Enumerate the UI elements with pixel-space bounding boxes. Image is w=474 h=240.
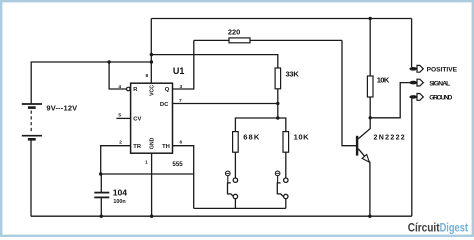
- svg-text:TR: TR: [133, 144, 142, 150]
- svg-text:TH: TH: [162, 144, 170, 150]
- CircuitDigest logo: [408, 222, 468, 234]
- wire pin1 GND leg: [151, 153, 153, 216]
- svg-text:U1: U1: [173, 66, 185, 76]
- svg-text:3: 3: [179, 84, 182, 90]
- wire 10K button resistor bottom lead: [285, 152, 287, 178]
- resistor 68K: [233, 132, 239, 153]
- wire 68K and 10K tops: [235, 118, 285, 132]
- wire pin2 TR leg: [101, 146, 131, 174]
- wire button S1 bottom lead: [234, 199, 236, 209]
- node GND pin to ground rail: [150, 215, 153, 218]
- wire capacitor top lead: [100, 174, 102, 192]
- push button S1: [226, 171, 238, 199]
- svg-text:7: 7: [179, 98, 182, 104]
- wire pin3 Q output: [173, 40, 194, 89]
- svg-text:68K: 68K: [243, 133, 260, 142]
- node 33K to divider: [276, 116, 279, 119]
- svg-text:33K: 33K: [286, 70, 300, 79]
- svg-text:Q: Q: [165, 87, 170, 93]
- wire emitter of Q1 to ground rail: [358, 149, 370, 216]
- resistor 10K collector: [367, 76, 373, 97]
- wire collector of Q1: [358, 118, 370, 139]
- wire pin6 TH leg: [173, 146, 194, 209]
- svg-text:GROUND: GROUND: [429, 95, 452, 102]
- resistor 10K timing: [283, 132, 289, 153]
- svg-text:104: 104: [113, 188, 128, 198]
- wire pin4 reset: [109, 62, 126, 89]
- wire base of Q1 to 220 net: [342, 40, 356, 145]
- svg-text:10K: 10K: [294, 133, 310, 142]
- svg-text:6: 6: [179, 139, 182, 145]
- svg-text:POSITIVE: POSITIVE: [427, 67, 458, 74]
- wire battery minus lead: [30, 140, 32, 217]
- wire capacitor bottom lead: [100, 198, 102, 217]
- svg-text:9V---12V: 9V---12V: [46, 104, 77, 113]
- svg-text:5: 5: [118, 112, 121, 118]
- push button S2: [275, 171, 288, 199]
- node cap to ground rail: [100, 215, 103, 218]
- svg-text:Círcuit: Círcuit: [408, 222, 440, 234]
- node VCC to battery wire: [150, 60, 153, 63]
- node TR cap junction: [99, 172, 102, 175]
- svg-text:GND: GND: [150, 137, 156, 149]
- pin4 reset bubble: [127, 87, 131, 91]
- svg-text:Digest: Digest: [440, 222, 469, 234]
- wire 33K bottom lead: [277, 89, 279, 118]
- connector SIGNAL: [409, 79, 450, 87]
- connector POSITIVE: [409, 65, 457, 73]
- wire 68K bottom lead: [234, 152, 236, 178]
- wire ground bottom rail: [31, 215, 412, 217]
- svg-text:2: 2: [119, 140, 122, 146]
- op-amp timer IC U1 555 body: [131, 83, 173, 153]
- svg-text:SIGNAL: SIGNAL: [429, 80, 450, 87]
- wire POSITIVE drop: [411, 19, 413, 68]
- node collector 10K signal: [369, 116, 372, 119]
- svg-text:555: 555: [172, 161, 183, 168]
- svg-text:10K: 10K: [377, 75, 390, 84]
- node DC to 33K: [276, 102, 279, 105]
- wire VCC vertical to pin8: [150, 19, 152, 84]
- wire 10K collector resistor top lead: [369, 19, 371, 77]
- wire VCC top rail: [151, 18, 411, 20]
- transistor Q1 2N2222: [356, 136, 369, 162]
- wire battery plus to VCC node: [31, 62, 151, 104]
- wire collector node to SIGNAL: [370, 83, 410, 118]
- wire 220 left lead: [194, 39, 229, 41]
- svg-text:100n: 100n: [113, 199, 125, 205]
- node emitter to ground rail: [368, 215, 371, 218]
- connector GROUND: [409, 94, 452, 102]
- svg-text:CV: CV: [133, 117, 141, 123]
- wire pin7 DC to 33K bottom: [173, 103, 278, 105]
- svg-text:4: 4: [118, 84, 121, 90]
- wire 220 right lead: [250, 39, 342, 41]
- wire pin5 CV stub: [116, 117, 130, 119]
- resistor 33K: [275, 68, 281, 89]
- wire TR-TH link: [101, 173, 194, 175]
- svg-text:VCC: VCC: [150, 85, 156, 96]
- wire button S2 bottom lead: [285, 199, 287, 209]
- wire buttons bottom rail: [194, 207, 286, 209]
- resistor 220: [229, 38, 250, 43]
- node top rail to 10K: [369, 17, 372, 20]
- wire GROUND connector drop: [411, 98, 413, 216]
- svg-text:DC: DC: [160, 102, 169, 108]
- svg-text:1: 1: [145, 160, 148, 166]
- node reset branch: [107, 60, 110, 63]
- node VCC to 33K wire: [150, 53, 153, 56]
- battery B1 9V-12V: [22, 104, 42, 139]
- wire 10K collector resistor bottom lead: [369, 97, 371, 118]
- svg-text:220: 220: [228, 27, 240, 36]
- wire VCC to 33K top: [151, 55, 277, 68]
- capacitor C1 104: [94, 193, 109, 198]
- svg-text:8: 8: [145, 73, 148, 79]
